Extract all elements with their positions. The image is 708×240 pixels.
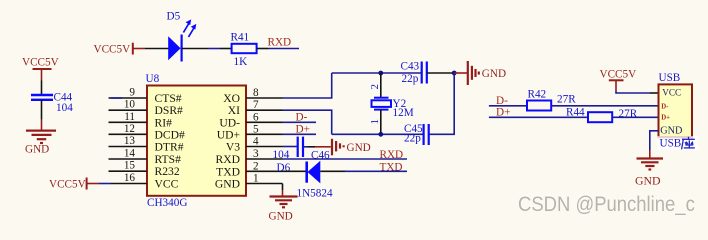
diode D6 1N5824: [277, 161, 346, 200]
svg-text:CTS#: CTS#: [155, 92, 182, 105]
connector USB (USB座): [659, 72, 693, 137]
wire RXD: [283, 158, 408, 160]
svg-text:GND: GND: [635, 174, 661, 188]
svg-text:RXD: RXD: [216, 153, 240, 166]
pin 9 CTS#: [109, 87, 182, 106]
svg-text:16: 16: [124, 172, 136, 184]
svg-text:R232: R232: [155, 165, 180, 178]
svg-text:GND: GND: [269, 211, 293, 223]
svg-text:RTS#: RTS#: [155, 153, 182, 166]
wire D-: [283, 121, 317, 123]
svg-text:10: 10: [124, 99, 136, 111]
capacitor C45: [404, 123, 429, 145]
wire XI to crystal bottom: [283, 110, 332, 134]
label USB座: [658, 136, 699, 150]
svg-text:TXD: TXD: [380, 161, 403, 173]
svg-text:USB: USB: [660, 138, 682, 150]
wire crystal bottom rail: [332, 133, 424, 135]
svg-text:GND: GND: [347, 142, 371, 154]
resistor R42: [527, 89, 576, 111]
resistor R44: [566, 106, 638, 122]
wire USB GND pin: [650, 131, 659, 150]
pin 2 TXD: [216, 160, 282, 178]
svg-text:7: 7: [253, 99, 259, 111]
svg-text:D-: D-: [661, 104, 669, 111]
svg-text:RXD: RXD: [268, 37, 292, 49]
svg-text:14: 14: [124, 148, 136, 160]
wire: [145, 48, 169, 50]
svg-text:1K: 1K: [234, 56, 248, 68]
wire: [41, 81, 43, 95]
pin 6 UD-: [219, 111, 282, 129]
svg-text:VCC5V: VCC5V: [49, 179, 86, 191]
capacitor C43: [401, 61, 427, 85]
svg-text:XI: XI: [228, 104, 240, 117]
svg-text:27R: 27R: [557, 94, 576, 106]
svg-text:11: 11: [124, 111, 135, 123]
wire D-: [489, 105, 527, 107]
svg-text:D+: D+: [661, 115, 670, 122]
svg-text:R42: R42: [528, 89, 547, 101]
wire D+: [489, 116, 588, 118]
wire: [257, 48, 269, 50]
svg-text:UD+: UD+: [217, 128, 240, 141]
svg-text:USB: USB: [659, 72, 681, 84]
svg-text:2: 2: [253, 160, 259, 172]
wire: [303, 146, 308, 148]
wire C45 right to GND: [429, 73, 455, 134]
pin 13 DTR#: [109, 135, 184, 154]
svg-text:3: 3: [253, 148, 259, 160]
ground (sideways, right of C43): [454, 61, 506, 85]
svg-text:GND: GND: [660, 125, 682, 136]
wire crystal top rail: [332, 72, 422, 74]
wire crystal pin2: [380, 73, 382, 98]
svg-text:13: 13: [124, 135, 136, 147]
ground (sideways, right of C46): [315, 139, 371, 156]
svg-text:12M: 12M: [393, 107, 414, 119]
pin 3 RXD: [216, 148, 283, 166]
svg-text:VCC: VCC: [662, 87, 681, 97]
svg-text:CH340G: CH340G: [147, 197, 187, 209]
resistor R41: [231, 32, 257, 69]
pin 14 RTS#: [109, 148, 182, 167]
pin 15 R232: [109, 160, 180, 179]
power port VCC5V (USB): [600, 68, 637, 91]
pin 1 GND: [215, 173, 283, 191]
svg-text:104: 104: [56, 102, 73, 114]
svg-text:1N5824: 1N5824: [297, 188, 333, 200]
svg-text:D5: D5: [167, 11, 181, 23]
svg-text:V3: V3: [226, 141, 240, 154]
svg-text:1: 1: [369, 119, 381, 125]
wire D+: [283, 133, 317, 135]
wire: [427, 72, 454, 74]
power port VCC5V (top, LED rail): [94, 43, 146, 56]
pin 12 DCD#: [109, 123, 185, 142]
capacitor C44: [31, 92, 73, 115]
svg-text:TXD: TXD: [216, 165, 240, 178]
svg-text:1: 1: [253, 173, 259, 185]
pin 10 DSR#: [109, 99, 184, 118]
wire: [282, 184, 284, 191]
svg-text:VCC5V: VCC5V: [94, 44, 131, 56]
wire: [99, 183, 111, 185]
svg-text:VCC: VCC: [155, 178, 179, 191]
svg-text:DTR#: DTR#: [155, 141, 184, 154]
op-amp U8 CH340G chip body: [146, 73, 247, 209]
wire: [551, 105, 658, 107]
svg-text:GND: GND: [482, 68, 506, 80]
svg-text:R41: R41: [231, 32, 250, 44]
svg-text:DCD#: DCD#: [155, 128, 185, 141]
svg-text:C43: C43: [401, 61, 420, 73]
crystal Y2 12M: [369, 84, 414, 125]
svg-text:8: 8: [253, 87, 259, 99]
svg-text:DSR#: DSR#: [155, 104, 184, 117]
LED D5: [167, 11, 197, 62]
svg-text:GND: GND: [25, 144, 49, 156]
svg-text:VCC5V: VCC5V: [22, 57, 59, 69]
node crystal bottom junction: [378, 132, 383, 137]
svg-text:9: 9: [129, 87, 135, 99]
svg-text:R44: R44: [566, 106, 585, 118]
wire TXD: [345, 170, 407, 172]
svg-text:15: 15: [124, 160, 136, 172]
svg-text:22p: 22p: [404, 133, 421, 145]
wire: [612, 116, 658, 118]
pin 8 XO: [223, 87, 282, 105]
svg-text:2: 2: [369, 84, 381, 90]
svg-text:6: 6: [253, 111, 259, 123]
svg-text:5: 5: [253, 123, 259, 135]
node GND junction: [452, 71, 457, 76]
node crystal top junction: [378, 71, 383, 76]
wire crystal pin1: [380, 110, 382, 135]
pin 5 UD+: [217, 123, 283, 141]
wire: [182, 48, 208, 50]
wire VCC to USB: [616, 91, 650, 93]
pin 16 VCC: [111, 172, 179, 191]
svg-text:4: 4: [253, 136, 259, 148]
pin 11 RI#: [109, 111, 173, 130]
capacitor C46: [273, 137, 331, 162]
power port VCC5V (pin16): [49, 178, 99, 191]
wire: [41, 100, 43, 120]
ground (below chip pin1): [269, 190, 298, 223]
svg-text:22p: 22p: [402, 73, 419, 85]
pin 7 XI: [228, 99, 283, 117]
svg-text:GND: GND: [215, 178, 240, 191]
svg-text:D-: D-: [296, 111, 308, 123]
svg-text:12: 12: [124, 123, 135, 135]
svg-text:VCC5V: VCC5V: [600, 68, 637, 80]
power port VCC5V (top-left above C44): [22, 57, 59, 81]
wire: [283, 146, 298, 148]
svg-text:D+: D+: [296, 123, 310, 135]
svg-text:CSDN @Punchline_c: CSDN @Punchline_c: [518, 192, 695, 216]
svg-text:RXD: RXD: [380, 149, 404, 161]
ground (below C44): [25, 120, 56, 156]
svg-text:XO: XO: [223, 92, 240, 105]
svg-text:U8: U8: [146, 73, 160, 85]
wire XO to crystal top: [283, 73, 332, 98]
ground (below USB): [635, 150, 663, 188]
pin 4 V3: [226, 136, 283, 154]
